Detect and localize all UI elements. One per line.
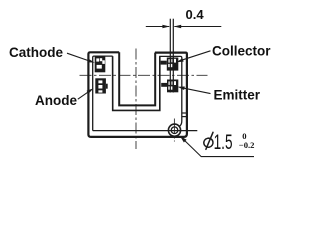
body outer outline xyxy=(88,52,186,137)
centerline horizontal body axis xyxy=(80,74,208,76)
body inner bottom line / hole horizontal centerline xyxy=(93,130,198,132)
slit line right xyxy=(172,19,174,93)
right wall rung lower xyxy=(182,116,187,118)
leader emitter xyxy=(177,87,210,94)
slit line left xyxy=(169,19,171,93)
centerline hole vertical xyxy=(173,119,175,142)
svg-text:Collector: Collector xyxy=(212,43,271,58)
slot outline inner U xyxy=(119,52,155,105)
slot outline outer U xyxy=(113,56,160,110)
collector electrode block xyxy=(161,58,179,71)
anode electrode block xyxy=(95,78,107,93)
leader collector xyxy=(176,51,210,62)
body inner outline left xyxy=(93,56,113,131)
dimension symbol phi xyxy=(203,132,214,149)
mounting hole inner circle xyxy=(171,127,178,134)
mounting hole outer circle xyxy=(168,124,180,136)
svg-text:1.5: 1.5 xyxy=(214,130,233,154)
svg-text:Anode: Anode xyxy=(35,93,77,108)
svg-text:−0.2: −0.2 xyxy=(239,140,255,150)
cathode electrode block xyxy=(95,56,106,72)
svg-text:Cathode: Cathode xyxy=(9,45,63,60)
dimension 0.4 line right xyxy=(174,25,222,28)
centerline vertical slot axis xyxy=(135,49,137,150)
dimension 0.4 line left xyxy=(146,25,170,28)
leader phi hole dimension xyxy=(180,136,254,157)
right wall rung upper xyxy=(182,112,187,114)
svg-text:Emitter: Emitter xyxy=(214,88,261,103)
leader cathode xyxy=(67,53,95,62)
emitter electrode block xyxy=(161,80,178,93)
leader anode xyxy=(78,88,94,99)
body inner outline right xyxy=(159,56,182,126)
svg-text:0.4: 0.4 xyxy=(186,7,205,22)
